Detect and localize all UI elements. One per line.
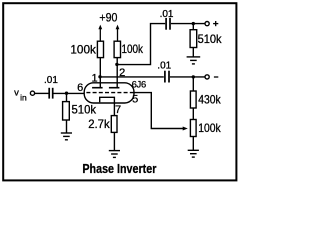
node plus output terminal (205, 22, 209, 26)
resistor 510k (plus output load) (190, 30, 197, 48)
label minus sign (214, 76, 218, 78)
potentiometer wiper arrowhead (183, 127, 188, 131)
tube grid dashed line (86, 92, 133, 94)
tube plate bar right (pin 2) (109, 87, 120, 89)
ground (input grid leak) (61, 133, 72, 140)
capacitor C1 .01 input coupling (49, 88, 53, 99)
wire top cap to plus terminal (171, 23, 205, 25)
capacitor .01 top (plus output coupling) (166, 18, 170, 30)
resistor 2.7k cathode bias (111, 116, 117, 133)
svg-text:.01: .01 (160, 9, 174, 20)
node junction minus output / 430k (192, 75, 195, 78)
svg-text:6: 6 (77, 82, 83, 94)
svg-text:2.7k: 2.7k (88, 118, 110, 131)
wire R 430k to potentiometer (192, 108, 194, 120)
ground (potentiometer) (188, 150, 199, 157)
ground (cathode resistor) (109, 151, 120, 158)
node junction on pin 1 lead (98, 75, 101, 78)
border frame (decorative) (3, 3, 236, 180)
wire left 100k to plate pin 1 (99, 58, 101, 88)
wire 2.7k to ground (113, 132, 115, 150)
svg-text:100k: 100k (70, 44, 96, 57)
wire junction down to R 510k left (66, 93, 68, 101)
ground (510k right) (187, 57, 201, 64)
power +90 arrow (left plate supply) (98, 25, 102, 42)
svg-text:510k: 510k (72, 104, 97, 117)
node junction on pin 2 lead (115, 63, 118, 66)
svg-text:7: 7 (115, 104, 121, 116)
tube plate bar left (pin 1) (92, 87, 103, 89)
potentiometer 100k (190, 120, 196, 137)
power +90 arrow (right plate supply) (116, 25, 120, 42)
wire junction down to R 430k (192, 77, 194, 91)
wire right 100k to plate pin 2 (116, 58, 118, 88)
resistor 430k (190, 91, 196, 108)
resistor 100k right plate load (114, 41, 120, 57)
tube 6J6 envelope (84, 83, 134, 103)
tube cathode (pin 7) (100, 97, 115, 115)
svg-text:in: in (20, 93, 27, 103)
wire R 510k left to ground (66, 120, 68, 133)
capacitor .01 middle (minus output coupling) (165, 71, 169, 83)
wire input terminal to C1 (35, 92, 49, 94)
svg-text:.01: .01 (44, 75, 58, 86)
svg-text:100k: 100k (122, 43, 144, 56)
svg-text:430k: 430k (198, 93, 221, 106)
svg-text:6J6: 6J6 (132, 78, 146, 89)
svg-text:5: 5 (132, 94, 138, 106)
wire potentiometer to ground (192, 137, 194, 151)
resistor 100k left plate load (97, 41, 103, 57)
wire junction down to R 510k right (192, 24, 194, 30)
svg-text:100k: 100k (198, 122, 221, 135)
wire C1 to grid pin 6 of tube (54, 92, 87, 94)
node Vin input terminal (30, 91, 34, 95)
wire R 510k right to ground (192, 48, 194, 57)
wire middle cap to minus terminal (170, 76, 205, 78)
svg-text:Phase Inverter: Phase Inverter (82, 161, 156, 176)
wire grid pin 5 to potentiometer wiper (133, 93, 184, 129)
node junction plus output / 510k (192, 22, 195, 25)
resistor 510k grid leak (left) (63, 102, 70, 120)
svg-text:510k: 510k (198, 33, 222, 46)
svg-text:v: v (14, 87, 19, 98)
svg-text:.01: .01 (157, 60, 171, 71)
svg-text:+90: +90 (99, 10, 117, 24)
wire pin 1 junction right to minus coupling cap (100, 76, 164, 78)
node minus output terminal (205, 75, 209, 79)
node junction C1 / R 510k (65, 92, 68, 95)
label plus sign (213, 21, 218, 26)
wire pin 2 junction right and up to top coupling cap (117, 24, 165, 65)
